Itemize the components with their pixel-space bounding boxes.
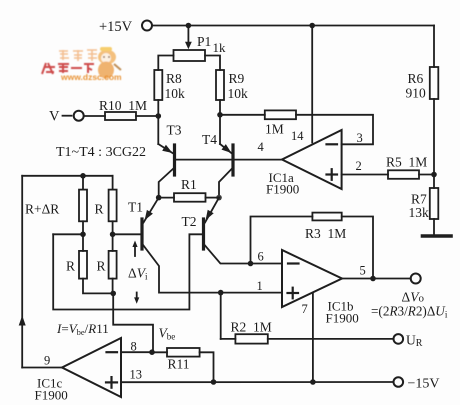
wire R9 down to T4 emitter	[219, 100, 221, 144]
wire R8 down to T3 emitter	[157, 100, 159, 144]
ground	[423, 234, 452, 238]
svg-text:R2 1M: R2 1M	[231, 320, 272, 335]
wire T2 collector to IC1b pin 6	[205, 246, 282, 264]
current arrow I up	[19, 316, 26, 326]
op-amp IC1a	[258, 129, 363, 197]
wire -15V rail pin 13	[121, 381, 393, 383]
wire T1 base to bridge right midpoint	[113, 233, 141, 235]
wire T3 collector to R1 left node	[159, 168, 175, 198]
svg-text:13: 13	[130, 368, 143, 382]
wire IC1a pin 14 supply	[311, 26, 313, 143]
svg-text:R6: R6	[408, 71, 424, 86]
svg-text:T3: T3	[167, 123, 182, 138]
wire R6 to node	[433, 99, 435, 175]
wire bridge left supply from IC1c	[21, 176, 23, 368]
transistor T1	[128, 198, 159, 249]
resistor R9 10k	[216, 70, 248, 101]
wire P1 left lead to R8	[158, 56, 173, 71]
svg-text:R+ΔR: R+ΔR	[25, 202, 59, 217]
node pin5/R3	[370, 276, 376, 282]
wire T4 collector to R1 right node	[219, 168, 233, 198]
wire R3 to pin5 node	[342, 217, 373, 279]
node pin7 on rail	[310, 379, 316, 385]
svg-text:F1900: F1900	[35, 388, 68, 403]
svg-text:ΔVi: ΔVi	[128, 266, 148, 282]
svg-text:V: V	[49, 109, 60, 125]
wire R10 to R8/T3 node	[136, 115, 158, 117]
svg-text:R9: R9	[229, 71, 245, 86]
svg-text:7: 7	[302, 302, 308, 316]
svg-text:2: 2	[356, 159, 362, 173]
wire top +15V rail	[152, 25, 434, 27]
svg-text:T4: T4	[202, 132, 217, 147]
node bridge right midpoint	[110, 232, 116, 238]
terminal V input	[49, 109, 84, 125]
node pin14 on top rail	[309, 23, 315, 29]
wire 1M to IC1a pin 3 loop	[296, 115, 373, 145]
svg-text:=(2R3/R2)ΔUi: =(2R3/R2)ΔUi	[371, 304, 448, 320]
wire R2 drop	[220, 293, 222, 339]
transistor T4	[202, 132, 233, 175]
wire node to R7	[433, 175, 435, 189]
wire R3 feedback loop	[251, 217, 313, 264]
label dVi input arrows	[128, 241, 148, 304]
svg-text:910: 910	[406, 86, 427, 101]
svg-text:10k: 10k	[228, 86, 249, 101]
node P1 wiper junction	[186, 23, 192, 29]
node R11 on rail	[211, 379, 217, 385]
resistor R2 1M	[221, 320, 272, 344]
wire Vbe route to pin 8	[113, 293, 153, 352]
svg-text:4: 4	[258, 140, 265, 154]
svg-text:F1900: F1900	[266, 182, 299, 197]
resistor R3 1M	[305, 213, 346, 241]
node R5/R6/R7	[431, 172, 437, 178]
svg-text:R3 1M: R3 1M	[305, 226, 346, 241]
terminal UR	[394, 333, 423, 350]
svg-text:T2: T2	[182, 214, 197, 229]
wire T3/T4 base to IC1a output pin 4	[176, 159, 282, 161]
resistor R top right	[95, 176, 117, 222]
wire bottom right R to bridge bottom node	[112, 279, 114, 294]
node 1M reference resistor junction	[217, 112, 223, 118]
svg-text:P1: P1	[197, 34, 211, 49]
resistor R10 1M	[99, 98, 147, 120]
wire R5 to R6/R7 node	[419, 174, 434, 176]
svg-text:10k: 10k	[165, 86, 186, 101]
svg-text:6: 6	[258, 250, 264, 264]
svg-text:R10 1M: R10 1M	[99, 98, 147, 113]
svg-text:R1: R1	[181, 177, 197, 192]
wire top rail right drop to R6	[433, 26, 435, 68]
wire R+dR to left midpoint	[82, 221, 84, 234]
wire R7 to ground	[433, 219, 435, 235]
op-amp IC1b	[257, 250, 366, 326]
wire P1 right lead to R9	[205, 56, 220, 71]
node bridge left midpoint	[80, 232, 86, 238]
resistor 1M reference	[223, 110, 296, 136]
wire T2 base route to bridge left midpoint	[53, 234, 202, 309]
resistor R1	[159, 177, 219, 202]
wire left midpoint horizontal	[53, 233, 83, 235]
wire R topright to right midpoint	[112, 221, 114, 234]
node pin8/Vbe/R11	[149, 349, 155, 355]
watermark logo	[42, 47, 122, 82]
svg-text:ΔVo: ΔVo	[402, 290, 425, 305]
node R1 left junction	[156, 195, 162, 201]
resistor R bottom left	[66, 234, 87, 278]
wire bottom left R to bridge bottom node	[83, 279, 113, 294]
svg-text:R8: R8	[166, 71, 182, 86]
wire bridge top	[22, 175, 112, 177]
node pin6/R3 junction	[248, 261, 254, 267]
red characters 维库一下	[42, 63, 94, 74]
potentiometer P1	[174, 26, 227, 62]
wire IC1b output pin 5	[342, 278, 411, 280]
resistor R11	[152, 348, 200, 372]
svg-text:www.dzsc.com: www.dzsc.com	[60, 72, 122, 82]
svg-text:+15V: +15V	[99, 19, 133, 35]
svg-text:R: R	[95, 202, 104, 217]
wire IC1c pin 8	[121, 351, 152, 353]
svg-text:R: R	[97, 259, 106, 274]
transistor T3	[158, 123, 181, 176]
svg-text:R: R	[66, 259, 75, 274]
wire IC1a pin 2 to R5	[342, 174, 388, 176]
wire V terminal to R10	[84, 115, 105, 117]
node R2 drop on pin1 wire	[218, 290, 224, 296]
mascot	[98, 47, 121, 79]
wire R11 to -15V rail	[200, 352, 214, 382]
terminal -15V	[394, 377, 440, 392]
resistor R+dR	[25, 176, 87, 222]
svg-text:9: 9	[44, 354, 50, 368]
svg-text:1k: 1k	[213, 40, 227, 55]
svg-text:14: 14	[291, 129, 304, 143]
wire R2 to UR terminal	[268, 338, 394, 340]
wire T1 collector to IC1b pin 1	[144, 246, 283, 293]
svg-text:−15V: −15V	[408, 377, 440, 392]
transistor T2	[182, 198, 220, 249]
svg-text:I=Vbe/R11: I=Vbe/R11	[56, 321, 109, 337]
svg-text:1M: 1M	[265, 122, 284, 137]
svg-text:T1~T4 : 3CG22: T1~T4 : 3CG22	[56, 145, 146, 160]
node bridge top	[80, 173, 86, 179]
resistor R8 10k	[154, 70, 185, 101]
terminal dVo output	[371, 274, 448, 320]
svg-text:R5 1M: R5 1M	[386, 155, 427, 170]
node R10/R8 junction	[156, 113, 162, 119]
node R1 right junction	[216, 195, 222, 201]
svg-text:UR: UR	[406, 333, 423, 350]
svg-text:Vbe: Vbe	[159, 326, 176, 342]
resistor R6 910	[406, 67, 439, 101]
op-amp IC1c	[35, 338, 143, 403]
wire IC1b pin 7 to -15V rail	[312, 293, 314, 382]
svg-text:5: 5	[360, 264, 366, 278]
svg-text:1: 1	[257, 279, 263, 293]
resistor R5 1M	[386, 155, 427, 179]
svg-text:3: 3	[357, 131, 363, 145]
svg-text:13k: 13k	[409, 205, 430, 220]
terminal +15V	[99, 19, 152, 35]
node bridge bottom	[110, 291, 116, 297]
resistor R bottom right	[97, 234, 117, 278]
resistor R7 13k	[409, 188, 439, 220]
svg-text:F1900: F1900	[326, 311, 359, 326]
faint upper characters	[59, 50, 97, 61]
svg-text:R11: R11	[168, 357, 190, 372]
wire IC1c output pin 9	[22, 367, 62, 369]
svg-text:T1: T1	[128, 200, 143, 215]
